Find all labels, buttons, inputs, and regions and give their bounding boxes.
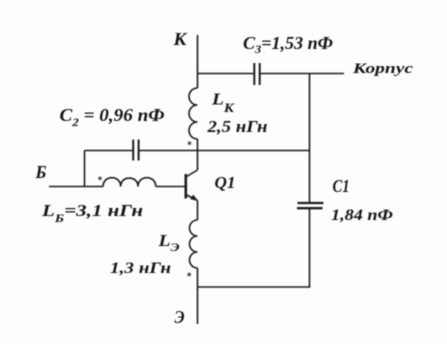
svg-text:C3=1,53 пФ: C3=1,53 пФ: [243, 33, 333, 56]
svg-text:LК: LК: [211, 90, 235, 116]
svg-text:1,84 пФ: 1,84 пФ: [331, 207, 393, 224]
svg-text:Q1: Q1: [215, 173, 236, 192]
svg-text:Э: Э: [175, 307, 185, 327]
svg-text:2,5 нГн: 2,5 нГн: [206, 117, 267, 136]
svg-text:LБ=3,1 нГн: LБ=3,1 нГн: [41, 201, 143, 225]
svg-text:1,3 нГн: 1,3 нГн: [110, 260, 171, 277]
svg-text:C2 = 0,96 пФ: C2 = 0,96 пФ: [60, 105, 165, 129]
svg-text:C1: C1: [333, 176, 350, 196]
svg-text:Корпус: Корпус: [352, 61, 414, 77]
svg-text:LЭ: LЭ: [157, 231, 179, 254]
svg-text:Б: Б: [35, 162, 47, 182]
svg-text:К: К: [172, 29, 188, 49]
